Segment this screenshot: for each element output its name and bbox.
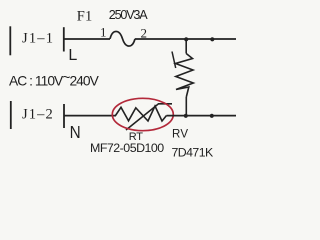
junction dot bottom right — [210, 114, 214, 118]
junction dot top right — [210, 37, 214, 41]
svg-text:2: 2 — [141, 25, 148, 40]
svg-text:1: 1 — [100, 25, 107, 40]
junction dot bottom at RV — [184, 114, 188, 118]
thermistor RT strike line — [126, 104, 172, 130]
connector J1 pin-2 body bar — [10, 101, 12, 129]
varistor RV zigzag — [176, 54, 194, 98]
svg-text:250V3A: 250V3A — [109, 8, 148, 22]
svg-text:RV: RV — [172, 129, 188, 141]
wire N rail right segment — [167, 115, 237, 117]
thermistor RT zigzag — [116, 106, 167, 121]
fuse F1 symbol — [110, 31, 135, 46]
varistor RV vertical lead bottom — [185, 97, 187, 116]
svg-text:J1–2: J1–2 — [22, 106, 54, 122]
junction dot top at RV — [184, 37, 188, 41]
svg-text:J1–1: J1–1 — [22, 31, 54, 47]
svg-text:L: L — [68, 47, 77, 64]
connector J1 pin-2 terminal bar (N) — [63, 104, 65, 128]
red highlight ellipse around RT — [112, 98, 173, 130]
svg-text:MF72-05D100: MF72-05D100 — [90, 141, 164, 155]
wire L rail left segment — [64, 38, 110, 40]
svg-text:F1: F1 — [77, 9, 93, 25]
connector J1 pin-1 body bar — [9, 26, 11, 55]
varistor RV extra sketch stroke — [172, 52, 176, 69]
wire N rail left segment — [64, 115, 116, 117]
svg-text:7D471K: 7D471K — [172, 145, 214, 159]
svg-text:AC : 110V~240V: AC : 110V~240V — [9, 70, 100, 88]
varistor RV vertical lead top — [185, 39, 187, 53]
connector J1 pin-1 terminal bar (L) — [63, 27, 65, 51]
wire L rail right segment — [135, 38, 236, 40]
svg-text:N: N — [70, 122, 81, 142]
